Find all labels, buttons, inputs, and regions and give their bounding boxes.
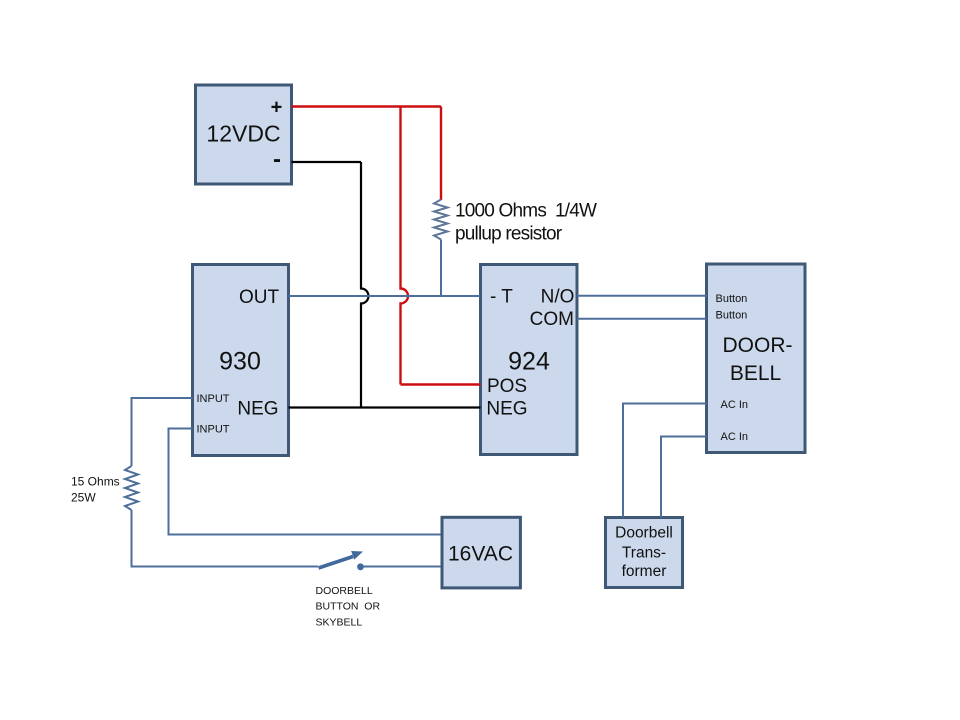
svg-text:- T: - T: [490, 287, 513, 308]
svg-text:AC In: AC In: [721, 399, 749, 411]
switch SW1 contact dot: [357, 563, 364, 570]
wire black: 12VDC - horizontal: [292, 161, 362, 163]
wire blue: 924 N/O to doorbell Button 1: [577, 295, 707, 297]
wire red: vertical branch with hop over OUT net, down to POS level: [401, 107, 409, 385]
svg-text:INPUT: INPUT: [197, 424, 230, 436]
svg-text:BUTTON OR: BUTTON OR: [316, 601, 381, 613]
svg-text:OUT: OUT: [239, 287, 280, 308]
svg-text:former: former: [622, 563, 667, 580]
wire blue: doorbell AC In 2 to transformer: [661, 437, 707, 518]
svg-text:BELL: BELL: [730, 362, 781, 385]
wire blue: switch contact to 16VAC: [361, 566, 441, 568]
svg-text:12VDC: 12VDC: [206, 121, 280, 147]
svg-text:POS: POS: [487, 376, 527, 397]
switch SW1 doorbell button blade: [319, 557, 354, 569]
resistor R1 1000 Ohms pullup: [434, 200, 448, 240]
wire red: horizontal into 924 POS: [401, 383, 481, 385]
svg-text:Button: Button: [716, 309, 748, 321]
svg-text:NEG: NEG: [237, 398, 278, 419]
transformer 16VAC box: [442, 517, 520, 588]
wire blue: R2 bottom down and right to switch: [132, 510, 319, 567]
doorbell transformer box: [606, 518, 683, 588]
svg-text:pullup resistor: pullup resistor: [455, 224, 563, 245]
svg-text:NEG: NEG: [486, 398, 527, 419]
wire blue: 924 COM to doorbell Button 2: [577, 318, 707, 320]
svg-text:15 Ohms: 15 Ohms: [71, 475, 120, 489]
wire blue: 930 INPUT2 left, down, right to 16VAC: [169, 429, 441, 535]
wire blue: 930 INPUT1 left and down to R2 top: [132, 398, 193, 466]
wire red: corner down to resistor R1 top: [440, 107, 442, 201]
wire blue: doorbell AC In 1 to transformer: [623, 404, 707, 518]
wire blue: R1 bottom to OUT net junction: [440, 240, 442, 297]
svg-text:1000 Ohms 1/4W: 1000 Ohms 1/4W: [455, 201, 597, 222]
svg-text:DOOR-: DOOR-: [723, 334, 793, 357]
wire black: NEG net from 930 NEG to 924 NEG: [289, 406, 481, 408]
svg-text:-: -: [273, 146, 281, 173]
svg-text:COM: COM: [530, 309, 574, 330]
svg-text:SKYBELL: SKYBELL: [316, 617, 363, 629]
svg-text:Trans-: Trans-: [622, 545, 666, 562]
svg-text:930: 930: [219, 348, 261, 376]
svg-text:AC In: AC In: [721, 431, 749, 443]
svg-text:+: +: [271, 97, 283, 119]
module 924 box: [481, 265, 578, 455]
doorbell box: [707, 264, 806, 453]
wire blue: 930 OUT to 924 -T: [289, 295, 481, 297]
power supply 12VDC box: [196, 85, 292, 184]
resistor R2 15 Ohms 25W: [125, 466, 138, 510]
svg-text:16VAC: 16VAC: [448, 543, 513, 566]
module 930 box: [193, 265, 289, 456]
svg-text:Doorbell: Doorbell: [615, 525, 673, 542]
wire black: vertical with hop over OUT net down to NEG net: [361, 162, 369, 408]
svg-text:DOORBELL: DOORBELL: [316, 585, 373, 597]
svg-text:924: 924: [508, 348, 550, 376]
svg-text:N/O: N/O: [541, 286, 575, 307]
svg-text:25W: 25W: [71, 491, 96, 505]
svg-text:Button: Button: [716, 293, 748, 305]
wire red: 12VDC + to corner above pullup resistor: [292, 105, 442, 107]
svg-text:INPUT: INPUT: [197, 393, 230, 405]
switch SW1 arrow head: [351, 551, 363, 560]
